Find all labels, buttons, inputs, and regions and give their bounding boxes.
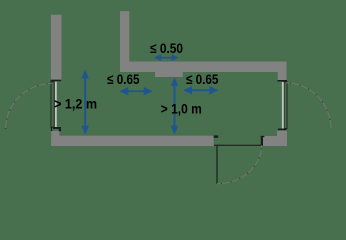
bottom door swing arc	[217, 145, 262, 184]
wall: L-shaped (vertical part)	[120, 11, 129, 72]
svg-text:> 1,2 m: > 1,2 m	[54, 96, 97, 112]
svg-text:≤ 0.65: ≤ 0.65	[186, 71, 219, 87]
bottom door left jamb mark	[214, 135, 219, 137]
wall: right top piece below band	[278, 72, 287, 80]
left door swing arc dots	[6, 84, 52, 130]
svg-text:> 1,0 m: > 1,0 m	[161, 101, 202, 117]
wall: bottom-left corner column	[51, 131, 59, 146]
dimension arrow: >1,0 m vertical	[171, 77, 178, 135]
bottom door leaf (open)	[216, 146, 217, 184]
wall: right bottom corner block	[277, 131, 287, 146]
left door leaf light stripe	[55, 82, 57, 128]
left door leaf lower edge	[51, 127, 52, 131]
left door leaf	[51, 82, 54, 128]
right door leaf	[284, 82, 287, 129]
svg-text:≤ 0.50: ≤ 0.50	[150, 40, 183, 56]
dimension arrow: <=0.50 horizontal	[154, 54, 178, 61]
wall: stub below band (width 0.50)	[155, 72, 183, 77]
wall: L-shaped (horizontal band to right wall)	[120, 62, 287, 73]
left door swing arc	[6, 84, 52, 130]
bottom door right jamb cap	[261, 136, 265, 137]
wall: bottom band (right of door)	[263, 136, 287, 146]
svg-text:≤ 0.65: ≤ 0.65	[107, 71, 140, 87]
bottom door swing arc dots	[217, 145, 262, 184]
dimension arrow: right <=0.65 horizontal	[183, 86, 218, 94]
left door bottom stop corner	[59, 129, 61, 132]
left door top stop	[51, 80, 62, 81]
wall: bottom band (left of door)	[51, 136, 214, 146]
right door swing arc	[286, 83, 331, 128]
dimension arrow: left <=0.65 horizontal	[119, 87, 152, 95]
right door swing arc dots	[286, 83, 331, 128]
left door bottom stop	[53, 127, 61, 129]
bottom door threshold line	[214, 145, 261, 146]
dimension arrow: >1,2 m vertical	[82, 70, 89, 135]
right door top stop	[278, 80, 288, 82]
bottom door right jamb mark	[261, 136, 263, 146]
wall: top-left vertical bar	[51, 15, 62, 80]
right door bottom stop	[278, 129, 287, 131]
right door leaf light stripe	[282, 82, 284, 129]
